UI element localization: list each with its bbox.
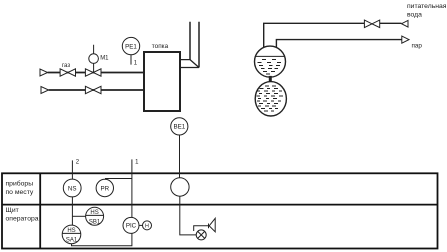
- svg-text:приборы: приборы: [6, 180, 34, 188]
- indicator circle (row 1, under BE1): [171, 178, 189, 196]
- instrument BE1: [171, 118, 188, 135]
- wire: top gas pipe: [48, 72, 150, 74]
- svg-text:Щит: Щит: [6, 207, 19, 214]
- flue duct: [180, 60, 199, 68]
- svg-text:HS: HS: [67, 228, 75, 234]
- svg-text:питательная: питательная: [407, 3, 447, 10]
- valve (bottom gas line): [85, 86, 101, 93]
- svg-text:пар: пар: [412, 43, 423, 50]
- wire: steam line: [276, 40, 401, 48]
- svg-text:газ: газ: [62, 63, 70, 69]
- alarm lamp (circle with X): [196, 230, 206, 240]
- water level line: [255, 55, 284, 57]
- control valve Q1 (gas): [85, 69, 101, 76]
- svg-text:NS: NS: [68, 185, 77, 192]
- svg-text:HS: HS: [90, 210, 98, 216]
- svg-text:вода: вода: [407, 12, 422, 19]
- svg-text:1: 1: [135, 159, 139, 165]
- svg-text:SB1: SB1: [89, 219, 101, 225]
- wire: branch to HS SB1: [72, 215, 85, 217]
- boiler drum lower: [255, 82, 286, 116]
- signal line 1: [131, 159, 133, 217]
- alarm horn: [194, 218, 216, 232]
- furnace (топка): [144, 52, 180, 111]
- wire: bottom gas pipe: [49, 89, 150, 91]
- valve (feedwater): [364, 20, 379, 28]
- wire: BE1 down to indicator: [179, 135, 181, 178]
- svg-text:M1: M1: [100, 55, 109, 61]
- valve (газ line): [60, 69, 75, 76]
- instrument PR: [96, 179, 113, 196]
- svg-text:2: 2: [76, 159, 80, 165]
- instrument PE1: [122, 37, 139, 54]
- svg-text:SA1: SA1: [66, 238, 78, 244]
- svg-text:1: 1: [134, 61, 138, 67]
- instrument H: [143, 221, 152, 230]
- instrument HS SA1: [62, 225, 81, 244]
- feedwater inlet arrow: [402, 20, 409, 27]
- wire: PIC to H: [139, 224, 143, 226]
- instrument HS SB1: [86, 207, 104, 225]
- wire: PE1 tap: [130, 55, 132, 65]
- svg-text:PIC: PIC: [126, 223, 137, 230]
- drum connector: [269, 76, 272, 82]
- gas inlet arrow (bottom pipe): [41, 87, 49, 94]
- svg-text:H: H: [145, 224, 149, 230]
- instrument PIC: [123, 217, 139, 233]
- wire: SA1 to PIC bottom run: [72, 233, 132, 245]
- boiler drum upper: [255, 46, 286, 77]
- signal line 2: [71, 160, 73, 226]
- water dashes (lower drum): [257, 86, 284, 111]
- svg-text:PE1: PE1: [125, 43, 137, 50]
- svg-text:по месту: по месту: [6, 189, 34, 196]
- instrument NS: [63, 179, 81, 197]
- actuator M1: [89, 45, 99, 73]
- svg-text:PR: PR: [100, 185, 109, 192]
- chimney: [190, 22, 199, 68]
- steam outlet arrow: [402, 36, 409, 43]
- svg-text:оператора: оператора: [6, 215, 39, 222]
- gas inlet arrow (top pipe): [40, 69, 48, 76]
- table frame: [2, 173, 438, 248]
- wire: indicator to alarm: [180, 196, 197, 235]
- svg-text:топка: топка: [152, 43, 169, 50]
- wire: PR to line 1: [105, 178, 132, 180]
- svg-text:BE1: BE1: [173, 124, 185, 131]
- water dashes (upper drum): [258, 60, 282, 75]
- wire: feedwater line: [264, 23, 402, 47]
